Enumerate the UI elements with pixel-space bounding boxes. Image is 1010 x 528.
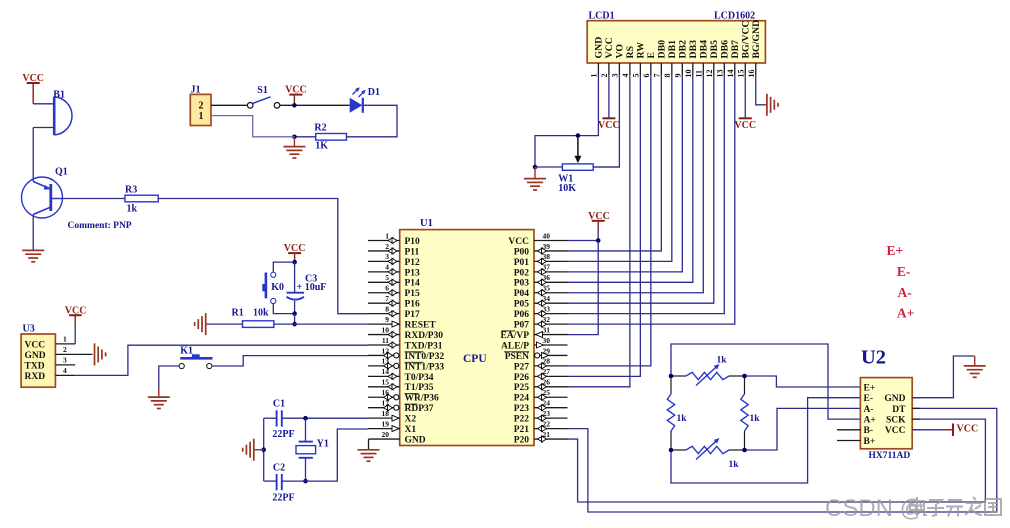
svg-text:LCD1: LCD1 (589, 11, 615, 22)
svg-text:16: 16 (747, 70, 756, 78)
pin 8 LCD DB1 (671, 63, 673, 75)
wire (32, 83, 34, 104)
wire LCD pin16 to gnd (756, 75, 765, 105)
svg-text:A-: A- (898, 285, 912, 300)
watermark CSDN (825, 495, 1001, 522)
svg-text:19: 19 (382, 419, 390, 428)
wire LCD GND to W1 (535, 75, 598, 167)
wire U2 VCC (912, 429, 944, 431)
wire base to R3 (63, 198, 125, 200)
svg-text:E-: E- (897, 264, 911, 279)
svg-text:5: 5 (632, 74, 641, 78)
pin 6 LCD E (650, 63, 652, 75)
wire LCD DB2 to P02 (568, 75, 683, 272)
svg-text:E+: E+ (887, 243, 904, 258)
svg-text:10k: 10k (253, 308, 269, 319)
svg-text:2: 2 (600, 74, 609, 78)
svg-text:P20: P20 (514, 435, 530, 445)
pin 1 P10 (368, 240, 400, 242)
ground (CPU GND pin20) (368, 439, 370, 449)
svg-text:P00: P00 (514, 247, 530, 257)
svg-text:4: 4 (63, 366, 67, 375)
svg-text:P06: P06 (514, 310, 530, 320)
node junction (303, 479, 308, 484)
svg-text:1: 1 (199, 111, 204, 122)
svg-text:P24: P24 (514, 394, 530, 404)
svg-text:P26: P26 (514, 373, 530, 383)
svg-text:K0: K0 (271, 282, 284, 293)
wire J1 pin1 (211, 116, 294, 137)
resistor R1 (243, 321, 274, 328)
svg-text:RXD/P30: RXD/P30 (405, 331, 444, 341)
pin 28 P27 (534, 365, 568, 367)
wire LCD E to P27 (568, 75, 651, 366)
ground (K1) (148, 396, 170, 398)
svg-text:40: 40 (543, 231, 551, 240)
svg-text:7: 7 (385, 294, 389, 303)
svg-text:S1: S1 (257, 85, 268, 96)
svg-text:DB1: DB1 (667, 40, 678, 59)
svg-text:14: 14 (726, 70, 735, 78)
svg-text:VCC: VCC (598, 120, 620, 131)
connector J1 (190, 94, 211, 125)
wire R1 to CPU RESET (274, 323, 368, 325)
svg-text:BG/GND: BG/GND (751, 20, 762, 59)
wire R1 to ground (207, 323, 243, 325)
svg-text:R3: R3 (125, 185, 137, 196)
node junction (292, 322, 297, 327)
pin 37 P02 (534, 271, 568, 273)
pin 9 RESET (368, 323, 400, 325)
svg-text:13: 13 (716, 70, 725, 78)
svg-text:R1: R1 (232, 308, 244, 319)
node junction (742, 448, 747, 453)
pin 16 WR/P36 (368, 396, 400, 398)
node junction (292, 311, 297, 316)
svg-text:P01: P01 (514, 258, 530, 268)
transistor Q1 (22, 177, 63, 218)
svg-text:INT0/P32: INT0/P32 (405, 352, 445, 362)
wire U3 pin1 to VCC (74, 325, 76, 344)
svg-text:P22: P22 (514, 415, 530, 425)
pin 6 P15 (368, 292, 400, 294)
svg-text:11: 11 (382, 336, 389, 345)
pin 23 P22 (534, 417, 568, 419)
pin 20 GND (369, 438, 400, 440)
node junction (742, 374, 747, 379)
svg-text:DB2: DB2 (677, 40, 688, 59)
svg-text:22PF: 22PF (272, 429, 294, 440)
svg-text:RW: RW (635, 42, 646, 59)
pin 13 INT1/P33 (368, 365, 400, 367)
svg-text:WR/P36: WR/P36 (405, 394, 440, 404)
svg-text:X1: X1 (405, 425, 417, 435)
wire (32, 128, 34, 182)
svg-text:14: 14 (382, 367, 390, 376)
svg-text:8: 8 (385, 304, 389, 313)
svg-text:P10: P10 (405, 237, 421, 247)
resistor bridge bottom 1k (671, 449, 686, 451)
svg-text:GND: GND (884, 394, 905, 404)
svg-text:X2: X2 (405, 415, 417, 425)
pin 22 P21 (534, 428, 568, 430)
wire VCC to C3 (294, 262, 296, 293)
ground (J1/R2 node) (293, 137, 295, 147)
svg-text:VCC: VCC (734, 120, 756, 131)
svg-text:TXD: TXD (25, 361, 45, 371)
pin 7 P16 (368, 302, 400, 304)
node junction (669, 448, 674, 453)
node junction (669, 374, 674, 379)
svg-text:1k: 1k (677, 414, 688, 424)
pin 4 LCD RS (629, 63, 631, 75)
svg-text:2: 2 (199, 101, 204, 112)
capacitor C2 (276, 474, 278, 490)
svg-text:TXD/P31: TXD/P31 (405, 341, 443, 351)
pin 29 PSEN (534, 354, 568, 356)
pin 9 LCD DB2 (681, 63, 683, 75)
svg-text:GND: GND (594, 37, 605, 59)
pin 2 U3 (55, 353, 75, 355)
pin 26 P25 (534, 386, 568, 388)
IC U1 CPU (400, 230, 534, 446)
svg-text:RDP37: RDP37 (405, 404, 434, 414)
ground (W1) (534, 167, 536, 178)
svg-text:P02: P02 (514, 268, 530, 278)
pin 4 U3 (55, 374, 75, 376)
pin 36 P03 (534, 281, 568, 283)
ground (R1) (205, 313, 207, 335)
svg-text:DB5: DB5 (709, 40, 720, 59)
svg-text:ALE/P: ALE/P (501, 341, 529, 351)
pin 33 P06 (534, 313, 568, 315)
pin 21 P20 (534, 438, 568, 440)
svg-text:EA/VP: EA/VP (501, 331, 530, 341)
svg-text:31: 31 (543, 325, 551, 334)
svg-text:P05: P05 (514, 300, 530, 310)
svg-text:20: 20 (382, 430, 390, 439)
pin 17 RDP37 (368, 407, 400, 409)
power VCC (LCD pin2) (608, 75, 610, 118)
svg-text:U3: U3 (23, 324, 35, 335)
pin 2 LCD VCC (608, 63, 610, 75)
wire VCC to pin40 (597, 230, 599, 241)
svg-text:B+: B+ (864, 437, 876, 447)
svg-text:P25: P25 (514, 383, 530, 393)
resistor bridge right 1k (744, 376, 746, 394)
svg-text:A-: A- (864, 405, 874, 415)
wire P21 to DT (568, 408, 997, 512)
svg-text:22PF: 22PF (272, 493, 294, 504)
pin 12 INT0/P32 (368, 354, 400, 356)
svg-text:5: 5 (385, 273, 389, 282)
resistor bridge top 1k (671, 375, 686, 377)
svg-text:K1: K1 (180, 346, 193, 357)
wire LED loop (347, 105, 398, 137)
pin 31 EA/VP (534, 334, 568, 336)
pin 25 P24 (534, 396, 568, 398)
pin U2 VCC (912, 429, 920, 431)
wire (33, 127, 54, 129)
svg-text:LCD1602: LCD1602 (714, 11, 755, 22)
svg-text:9: 9 (674, 74, 683, 78)
svg-text:P15: P15 (405, 289, 421, 299)
capacitor C1 (276, 410, 278, 426)
power VCC (LCD pin15) (744, 75, 746, 118)
wire LCD RW to P26 (568, 75, 641, 376)
svg-text:E: E (646, 52, 657, 59)
pin 18 X2 (368, 417, 400, 419)
svg-text:P11: P11 (405, 247, 420, 257)
svg-text:DB7: DB7 (730, 40, 741, 59)
svg-text:9: 9 (385, 315, 389, 324)
pin U2 B+ (837, 440, 860, 442)
svg-text:Q1: Q1 (55, 167, 68, 178)
svg-text:DB4: DB4 (698, 40, 709, 59)
svg-text:1K: 1K (315, 141, 328, 152)
svg-text:Comment: PNP: Comment: PNP (68, 221, 132, 231)
pin 10 RXD/P30 (368, 334, 400, 336)
svg-text:DB3: DB3 (688, 40, 699, 59)
node junction (292, 135, 297, 140)
pin 5 LCD RW (639, 63, 641, 75)
svg-text:1: 1 (385, 231, 389, 240)
pin 35 P04 (534, 292, 568, 294)
svg-text:DB0: DB0 (656, 40, 667, 59)
pin U2 SCK (912, 418, 920, 420)
wire VCC to EA/VP (568, 241, 599, 335)
svg-text:P21: P21 (514, 425, 530, 435)
pin 3 LCD VO (618, 63, 620, 75)
capacitor C3 (287, 292, 305, 294)
connector U3 (21, 334, 55, 387)
node junction (292, 260, 297, 265)
pin 1 U3 (55, 343, 75, 345)
wire K1 to INT0/P32 (212, 356, 368, 366)
wire U3 pin2 to gnd (75, 353, 92, 355)
pin 14 LCD DB7 (734, 63, 736, 75)
wire LCD DB6 to P06 (568, 75, 725, 313)
switch S1 (247, 103, 253, 109)
node junction (292, 103, 297, 108)
svg-text:10K: 10K (558, 183, 576, 194)
svg-text:P13: P13 (405, 268, 421, 278)
svg-text:P07: P07 (514, 321, 530, 331)
wire J1 pin2 (211, 104, 247, 106)
svg-text:A+: A+ (864, 416, 876, 426)
svg-text:1k: 1k (729, 460, 740, 470)
svg-text:J1: J1 (191, 85, 201, 96)
svg-text:30: 30 (543, 336, 551, 345)
wire LCD DB4 to P04 (568, 75, 704, 292)
svg-text:P16: P16 (405, 300, 421, 310)
pin 39 P00 (534, 250, 568, 252)
svg-text:VCC: VCC (604, 37, 615, 58)
svg-text:15: 15 (737, 70, 746, 78)
svg-text:6: 6 (642, 74, 651, 78)
pin 34 P05 (534, 302, 568, 304)
wire R2 to gnd node (294, 136, 315, 138)
svg-text:GND: GND (25, 351, 46, 361)
node junction (576, 133, 581, 138)
wire (33, 103, 54, 105)
node junction (261, 447, 266, 452)
wire Y1 bottom (305, 458, 307, 481)
svg-text:18: 18 (382, 409, 390, 418)
svg-text:DT: DT (892, 405, 906, 415)
power VCC (U2) (952, 424, 954, 437)
svg-text:6: 6 (385, 284, 389, 293)
wire X2 row (264, 417, 277, 419)
pin 7 LCD DB0 (660, 63, 662, 75)
wire S1 to VCC node (280, 104, 350, 106)
resistor R2 (316, 134, 347, 141)
wire LCD DB7 to P07 (568, 75, 735, 324)
svg-text:+ 10uF: + 10uF (297, 282, 327, 293)
pin 8 P17 (368, 313, 400, 315)
wire (32, 215, 34, 251)
svg-text:7: 7 (653, 74, 662, 78)
wire bridge bottom-left to E- (671, 398, 860, 483)
pin U2 GND (912, 397, 920, 399)
wire K0 to node (273, 304, 294, 314)
pin 12 LCD DB5 (713, 63, 715, 75)
svg-text:2: 2 (385, 242, 389, 251)
pin 19 X1 (368, 428, 400, 430)
svg-text:BG/VCC: BG/VCC (740, 20, 751, 58)
wire P20 to SCK (568, 419, 986, 502)
svg-text:4: 4 (621, 74, 630, 78)
svg-text:1: 1 (590, 74, 599, 78)
svg-text:12: 12 (705, 70, 714, 78)
LED D1 (350, 98, 363, 113)
pin U2 DT (912, 407, 920, 409)
ground (below Q1) (22, 249, 44, 251)
pin 15 T1/P35 (368, 386, 400, 388)
wire X1 row (264, 480, 277, 482)
svg-text:T0/P34: T0/P34 (405, 373, 434, 383)
wire LCD VO to W1 (593, 75, 619, 167)
wire LCD RS to P25 (568, 75, 630, 387)
buzzer B1 (53, 97, 56, 135)
potentiometer W1 (562, 164, 593, 170)
svg-text:R2: R2 (314, 123, 326, 134)
pushbutton K0 (273, 262, 294, 272)
pin 30 ALE/P (534, 344, 568, 346)
svg-text:1k: 1k (127, 204, 138, 215)
wire LCD DB5 to P05 (568, 75, 714, 303)
svg-text:P04: P04 (514, 289, 530, 299)
pushbutton K1 (180, 357, 212, 360)
svg-text:1k: 1k (750, 414, 761, 424)
svg-text:GND: GND (405, 435, 426, 445)
svg-text:P17: P17 (405, 310, 421, 320)
svg-text:C1: C1 (273, 398, 285, 409)
svg-text:D1: D1 (368, 87, 380, 98)
wire C3 to node (294, 301, 296, 314)
svg-text:P27: P27 (514, 362, 530, 372)
pin 1 LCD GND (597, 63, 599, 75)
wire U2 GND to gnd (912, 356, 975, 398)
pin 32 P07 (534, 323, 568, 325)
svg-text:10: 10 (684, 70, 693, 78)
svg-text:CPU: CPU (463, 353, 487, 365)
svg-text:P03: P03 (514, 279, 530, 289)
wire bridge top-right to E+ (745, 376, 861, 387)
pin 3 P12 (368, 260, 400, 262)
ground (U2) (974, 356, 976, 366)
wire bridge bottom-right to A- (745, 408, 861, 450)
node junction (303, 416, 308, 421)
svg-text:4: 4 (385, 263, 389, 272)
svg-text:VCC: VCC (885, 426, 906, 436)
pin 15 LCD BG/VCC (744, 63, 746, 75)
svg-text:VCC: VCC (508, 237, 529, 247)
ground (LCD pin16) (765, 104, 767, 106)
pin 27 P26 (534, 375, 568, 377)
svg-text:HX711AD: HX711AD (869, 451, 911, 461)
svg-text:B1: B1 (53, 90, 65, 101)
pin U2 B- (837, 429, 860, 431)
svg-text:DB6: DB6 (719, 40, 730, 59)
svg-text:3: 3 (611, 74, 620, 78)
svg-text:10: 10 (382, 325, 390, 334)
svg-text:3: 3 (385, 252, 389, 261)
pin 4 P13 (368, 271, 400, 273)
svg-text:3: 3 (63, 356, 67, 365)
pin 3 U3 (55, 364, 75, 366)
svg-text:C2: C2 (273, 463, 285, 474)
svg-text:INT1/P33: INT1/P33 (405, 362, 445, 372)
svg-text:PSEN: PSEN (505, 352, 529, 362)
svg-text:1k: 1k (717, 356, 728, 366)
wire LCD DB1 to P01 (568, 75, 672, 261)
svg-text:P12: P12 (405, 258, 421, 268)
resistor bridge left 1k (670, 376, 672, 394)
svg-text:E+: E+ (864, 383, 876, 393)
ground (C1/C2) (255, 449, 264, 451)
pin 24 P23 (534, 407, 568, 409)
IC LCD1 LCD1602 (587, 21, 765, 63)
wire LCD DB3 to P03 (568, 75, 693, 282)
svg-text:E-: E- (864, 394, 874, 404)
pin 13 LCD DB6 (723, 63, 725, 75)
wire Y1 top (305, 418, 307, 441)
pin 40 VCC (534, 240, 568, 242)
pin 16 LCD BG/GND (755, 63, 757, 75)
svg-text:11: 11 (695, 70, 704, 78)
node junction (596, 238, 601, 243)
svg-text:VO: VO (614, 44, 625, 59)
ground (U3 pin2) (94, 343, 96, 365)
svg-text:A+: A+ (897, 306, 914, 321)
pin 14 T0/P34 (368, 375, 400, 377)
svg-text:P14: P14 (405, 279, 421, 289)
svg-text:8: 8 (663, 74, 672, 78)
resistor R3 (125, 195, 158, 202)
svg-text:15: 15 (382, 378, 390, 387)
svg-text:B-: B- (864, 426, 874, 436)
pin 11 LCD DB4 (702, 63, 704, 75)
svg-text:RESET: RESET (405, 321, 437, 331)
pin 5 P14 (368, 281, 400, 283)
wire U3 RXD to CPU TXD/P31 (75, 345, 368, 375)
IC U2 HX711AD (860, 378, 912, 449)
svg-text:T1/P35: T1/P35 (405, 383, 434, 393)
svg-text:VCC: VCC (957, 424, 979, 435)
svg-text:RXD: RXD (25, 372, 46, 382)
svg-text:1: 1 (63, 335, 67, 344)
